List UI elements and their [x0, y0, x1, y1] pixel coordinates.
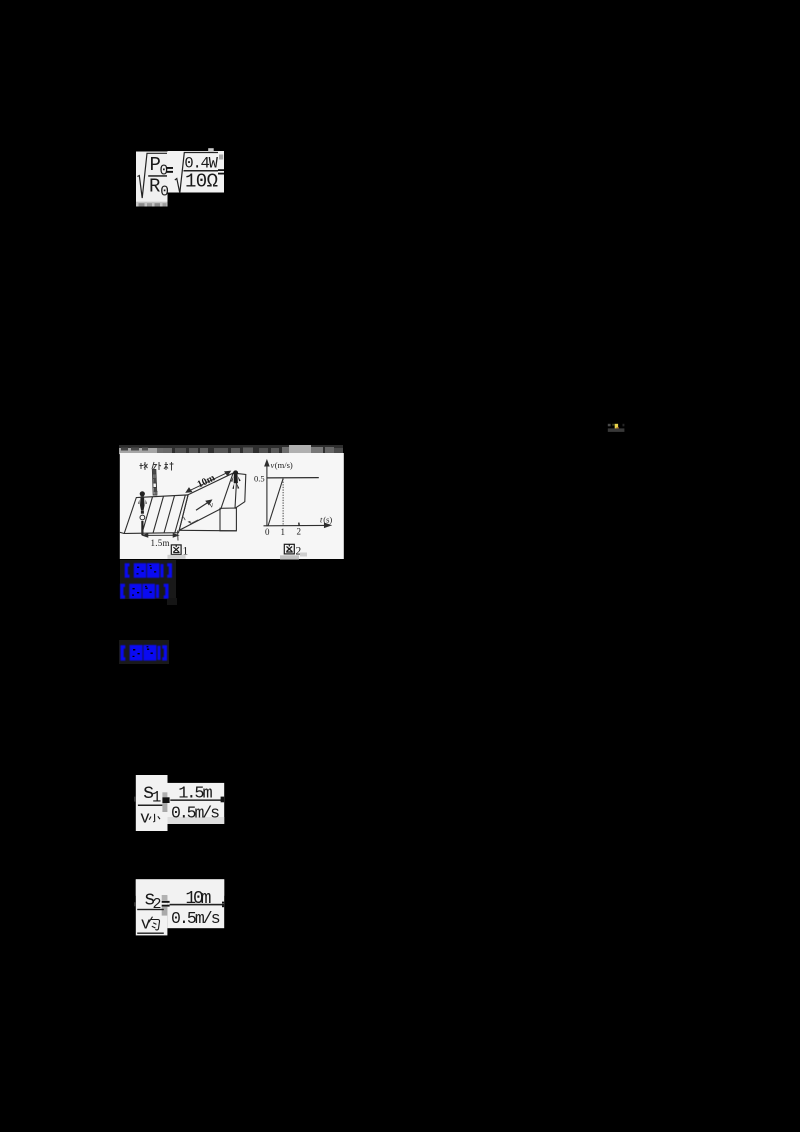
white patch A [136, 152, 168, 203]
0.5 horizontal line [267, 477, 319, 479]
formula image 3: s2/v匀 = 10m/0.5m/s [134, 877, 229, 939]
top platform [233, 473, 246, 508]
formula image 1: sqrt(P0/R0)=sqrt(0.4W/10ohm) [130, 146, 230, 216]
rising line [268, 479, 283, 527]
equals 2 at right edge [218, 169, 224, 171]
equals [162, 901, 170, 903]
fraction bar B [184, 170, 219, 172]
gray marks around equals [162, 895, 168, 901]
gray smudge row bottom of patch A [136, 202, 168, 207]
fraction bar right [170, 904, 225, 906]
radical 1 [137, 153, 167, 198]
图1 label [171, 545, 181, 555]
svg-text:1.5m: 1.5m [151, 538, 170, 548]
1.5m dimension double arrow [143, 531, 178, 541]
svg-text:v: v [141, 915, 151, 934]
svg-text:(s): (s) [323, 515, 332, 525]
blue heading block 3 background [119, 640, 169, 664]
yellow scan artifact [604, 420, 630, 436]
flat walkway parallelogram [120, 495, 188, 534]
v arrow on incline [196, 500, 211, 510]
white patch B [168, 151, 225, 193]
outer right balustrade edge [233, 473, 237, 508]
fraction bar left [137, 909, 164, 910]
person left [138, 491, 147, 535]
white figure area [120, 453, 344, 559]
ground line [179, 529, 236, 532]
small artifact marks on incline lower area [184, 517, 199, 524]
svg-text:10Ω: 10Ω [185, 171, 218, 193]
blue heading 【答案】 [120, 560, 180, 582]
equals 1 [167, 167, 174, 169]
fraction bar left [138, 805, 163, 807]
图2 label [284, 544, 294, 554]
radical 2 [175, 153, 218, 194]
v-t graph y axis [264, 461, 331, 528]
black square right edge [221, 797, 225, 803]
underline below v匀 [137, 933, 164, 934]
white patch left [136, 775, 168, 831]
hatch lines [142, 495, 185, 533]
dark mark right edge [222, 902, 224, 904]
svg-text:0.5m/s: 0.5m/s [171, 803, 220, 822]
10m double arrow [186, 471, 230, 492]
svg-text:2: 2 [153, 896, 162, 913]
gray smudge below 图2 [280, 555, 299, 559]
label 红外杆 (infrared pole text) [140, 462, 174, 471]
svg-text:2: 2 [297, 527, 302, 537]
tick at t=2 [298, 523, 300, 526]
fraction bar A [148, 175, 167, 177]
svg-text:0.5m/s: 0.5m/s [171, 909, 221, 928]
small white nub above patch B [208, 148, 214, 151]
svg-text:0: 0 [160, 185, 169, 201]
person top right [231, 470, 241, 489]
x axis [264, 524, 326, 526]
blue heading block 1+2 background [120, 560, 176, 599]
white patch right [168, 783, 225, 824]
incline surface quad [179, 473, 246, 531]
tiny left tick [134, 797, 135, 802]
svg-text:1: 1 [152, 789, 161, 807]
side face box [220, 508, 236, 531]
svg-text:R: R [149, 176, 160, 198]
blue heading 【分析】 [118, 581, 178, 603]
dashed vertical at t=1 [282, 479, 284, 526]
formula image 2: s1/v小 = 1.5m/0.5m/s [134, 773, 229, 835]
white patch right [167, 879, 224, 928]
svg-text:0.5: 0.5 [254, 474, 265, 484]
white patch top [136, 879, 224, 896]
figure image (escalator diagram + v-t graph) [119, 443, 344, 560]
fraction bar right [170, 799, 222, 801]
gray marks and equals between fractions [162, 792, 167, 797]
svg-text:0: 0 [265, 527, 270, 537]
svg-text:v: v [140, 808, 150, 827]
blue heading 【解答】 [118, 641, 174, 665]
svg-text:(m/s): (m/s) [275, 460, 293, 470]
white patch left [136, 879, 168, 935]
svg-text:10m: 10m [185, 889, 211, 909]
dark scanned band on top [119, 445, 343, 455]
tiny left tick [134, 902, 135, 906]
svg-text:1: 1 [281, 527, 286, 537]
infrared pole [152, 470, 157, 496]
gray square top right [219, 155, 223, 160]
